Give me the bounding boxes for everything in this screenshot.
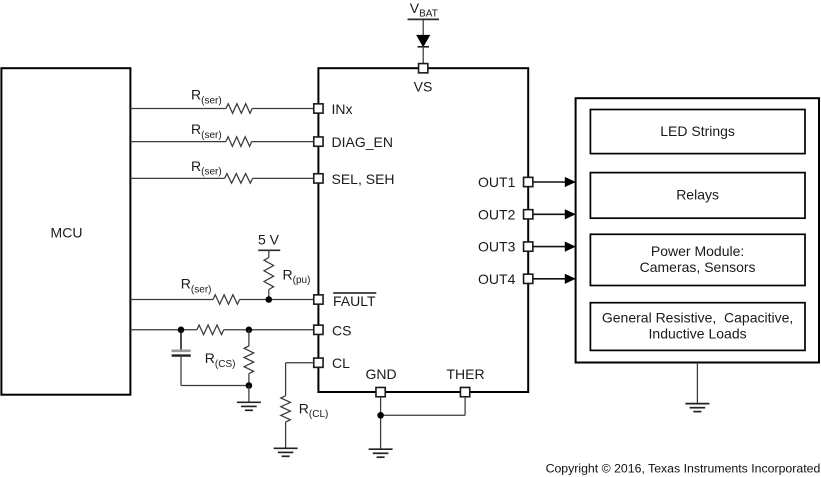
OUT4 pin label [478,271,516,287]
junction FAULT/R(pu) [266,296,273,303]
VBAT supply rail bar [408,18,440,20]
pin VS [419,64,428,73]
General loads box label line1 [602,310,793,326]
wire CL down to R(CL) [285,363,287,396]
LED Strings box label [660,123,735,139]
5V supply rail bar [258,249,280,251]
R(ser) value label INx [191,87,222,107]
svg-text:Relays: Relays [676,187,719,203]
capacitor C1 top plate [172,349,191,352]
pin GND [376,387,385,396]
wire THER to GND net [381,414,466,416]
wire bottom rail to node C [181,385,249,387]
svg-text:CL: CL [332,355,350,371]
pin CL [314,358,323,367]
Relays box [590,173,805,219]
wire OUT4 to load [533,278,566,280]
wire resistor to FAULT pin [240,299,314,301]
OUT3 pin label [478,239,516,255]
pin CS [314,325,323,334]
R(ser) value label SEL, SEH [191,158,222,178]
wire OUT2 to load [533,213,566,215]
wire OUT3 to load [533,246,566,248]
R(pu) value label [283,266,311,286]
svg-text:LED Strings: LED Strings [660,123,735,139]
wire THER pin down [464,397,466,415]
svg-text:GND: GND [365,366,396,382]
copyright note [546,461,821,475]
IC U1 box [318,68,528,392]
resistor R(ser) on SEL, SEH line [225,174,253,184]
CS pin label [332,322,351,338]
svg-text:OUT1: OUT1 [478,174,516,190]
VS pin label [414,79,433,95]
pin OUT3 [524,242,533,251]
wire MCU to CS node A [131,329,197,331]
svg-text:MCU: MCU [51,224,83,240]
junction node A [178,327,185,334]
pin FAULT [314,295,323,304]
wire CS resistor to node B [224,329,314,331]
ground below GND pin [369,449,393,457]
INx pin label [332,101,353,117]
svg-text:Power Module:: Power Module: [651,243,744,259]
svg-text:OUT2: OUT2 [478,206,516,222]
wire VBAT to diode [422,19,424,35]
svg-text:DIAG_EN: DIAG_EN [332,134,393,150]
CL pin label [332,355,350,371]
pin OUT2 [524,210,533,219]
OUT2 pin label [478,206,516,222]
wire loads box to ground [696,363,698,404]
pin INx [314,104,323,113]
resistor R(ser) on FAULT line [213,295,240,305]
R(CS) value label [205,350,236,370]
Relays box label [676,187,719,203]
svg-text:FAULT: FAULT [333,293,376,309]
ground below loads box [685,404,709,412]
wire GND pin down [380,397,382,449]
pin DIAG_EN [314,137,323,146]
R(ser) value label FAULT [181,276,212,296]
svg-text:Copyright © 2016, Texas Instru: Copyright © 2016, Texas Instruments Inco… [546,461,821,475]
resistor R(ser) on INx line [226,104,252,114]
wire OUT1 to load [533,181,566,183]
diode D1 [417,35,430,47]
arrowhead OUT3 [565,242,576,252]
svg-text:CS: CS [332,322,351,338]
Power Module box [590,234,805,285]
pin SEL, SEH [314,174,323,183]
wire MCU to INx resistor [131,108,227,110]
svg-text:5 V: 5 V [258,231,280,247]
arrowhead OUT4 [565,274,576,284]
svg-text:SEL, SEH: SEL, SEH [332,171,395,187]
resistor R(CS) [244,346,254,374]
pin OUT4 [524,274,533,283]
junction GND/THER [377,412,384,419]
wire MCU to FAULT resistor [131,299,214,301]
wire MCU to SEL, SEH resistor [131,177,225,179]
wire resistor to SEL, SEH pin [253,177,314,179]
MCU label [51,224,83,240]
arrowhead OUT2 [565,209,576,219]
svg-text:THER: THER [446,366,484,382]
wire node B to R(CS) [248,330,250,346]
ground below R(CS) [237,402,261,410]
LED Strings box [590,110,805,154]
R(CL) value label [299,400,329,420]
R(ser) value label DIAG_EN [191,121,222,141]
General loads box label line2 [649,325,747,341]
svg-text:OUT4: OUT4 [478,271,516,287]
resistor R(ser) on DIAG_EN line [226,137,252,147]
wire CL pin left [286,362,314,364]
svg-text:General Resistive, Capacitive: General Resistive, Capacitive, [602,310,793,326]
svg-text:VS: VS [414,79,433,95]
resistor on CS line [197,325,224,335]
resistor R(CL) [281,396,291,422]
junction node C [246,382,253,389]
svg-text:OUT3: OUT3 [478,239,516,255]
wire resistor to INx pin [252,108,313,110]
Power Module box label line2 [640,259,756,275]
wire node C to ground [248,386,250,403]
GND pin label [365,366,396,382]
OUT1 pin label [478,174,516,190]
SEL, SEH pin label [332,171,395,187]
net 5V label [258,231,280,247]
resistor R(pu) [264,258,274,290]
wire MCU to DIAG_EN resistor [131,141,226,143]
wire node A to capacitor [180,330,182,350]
wire R(CS) to node C [248,374,250,386]
net VBAT label [410,0,438,20]
MCU block [1,68,130,395]
General loads box [590,303,805,351]
svg-text:Inductive Loads: Inductive Loads [649,325,747,341]
junction node B [246,327,253,334]
wire R(CL) to ground [285,422,287,448]
wire R(pu) to FAULT line [268,290,270,300]
wire capacitor to bottom rail [180,357,182,386]
capacitor C1 bottom plate [172,354,191,356]
Power Module box label line1 [651,243,744,259]
pin THER [460,387,469,396]
svg-text:INx: INx [332,101,353,117]
pin OUT1 [524,177,533,186]
wire resistor to DIAG_EN pin [252,141,314,143]
FAULT pin label with overline [333,293,376,309]
ground below R(CL) [274,448,298,456]
loads outer box [576,98,819,362]
wire diode to VS pin [422,46,424,63]
THER pin label [446,366,484,382]
svg-text:Cameras, Sensors: Cameras, Sensors [640,259,756,275]
arrowhead OUT1 [565,177,576,187]
DIAG_EN pin label [332,134,393,150]
wire 5V to R(pu) [268,250,270,257]
